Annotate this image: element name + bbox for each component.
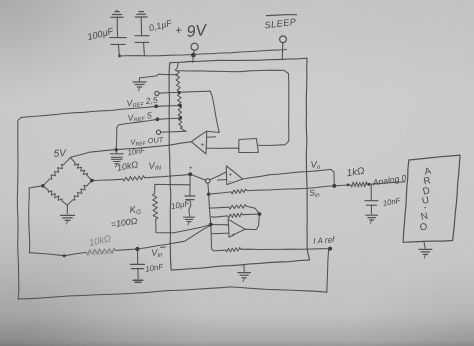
svg-text:+: + xyxy=(231,232,235,239)
wire VREF OUT to bridge 5V xyxy=(70,150,116,158)
wire to 10k sketch xyxy=(64,252,86,255)
wire SW1 to U1A input xyxy=(206,147,239,149)
ground below bridge xyxy=(66,205,68,214)
wire R4 to I A ref node xyxy=(241,248,330,251)
wire to K_G top xyxy=(155,184,190,193)
wire outer loop rise to IAref node xyxy=(327,250,329,293)
wire outer loop bottom xyxy=(18,287,327,299)
ground below 10nF V_in- xyxy=(133,279,143,281)
resistor 10k (V_IN+) xyxy=(92,179,123,180)
svg-text:+: + xyxy=(175,25,183,38)
resistor R4 (I A ref) xyxy=(226,248,241,252)
node small before R xyxy=(347,184,350,187)
wire buffer top input xyxy=(207,131,219,132)
wire node to U1C input xyxy=(211,224,228,226)
wire K_G bottom xyxy=(156,219,174,233)
ground wire from chain top xyxy=(140,74,178,78)
junction rail/C1 xyxy=(118,55,121,58)
op-amp U1B (upper) xyxy=(226,166,242,185)
wire S node to R 1k xyxy=(334,185,351,186)
wire R to Arduino xyxy=(367,182,405,184)
ground left of U1 xyxy=(138,78,140,81)
capacitor C1 100µF xyxy=(116,18,118,37)
pin VREF tap A circle xyxy=(155,91,159,95)
node V_in- xyxy=(135,247,139,251)
node bridge right vertex xyxy=(90,179,94,183)
resistor R3 xyxy=(211,216,227,217)
wire SLEEP drop to U1 xyxy=(281,43,284,59)
junction R2/R3 node xyxy=(258,212,262,216)
ground at U1 bottom xyxy=(243,265,245,272)
wire V_in- diagonal to opamp C xyxy=(137,225,210,249)
wire outer loop left edge xyxy=(17,117,21,299)
resistor K_G 100Ω xyxy=(153,194,159,220)
node VREF 5 xyxy=(156,117,160,121)
wire U1C output feedback xyxy=(245,214,259,230)
resistor chain RDIV (reference divider) xyxy=(177,63,178,68)
capacitor C2 0,1µF xyxy=(140,18,142,35)
terminal SLEEP xyxy=(280,36,287,43)
wire S_in out xyxy=(247,186,335,191)
wire tap B xyxy=(156,105,180,108)
junction VREF OUT / bridge node xyxy=(115,148,118,151)
node S_in junction xyxy=(332,184,336,188)
wire bridge left to V_in- loop xyxy=(29,186,43,253)
resistor 1kΩ xyxy=(351,182,367,187)
bridge resistor bottom-left xyxy=(43,186,49,190)
svg-text:+: + xyxy=(189,165,193,172)
ground below 10nF VREF OUT xyxy=(112,158,123,160)
wire VREF OUT pin to chain bottom xyxy=(161,130,186,133)
junction tap C on chain xyxy=(179,116,182,119)
wire internal loop (chain top to SW) xyxy=(179,70,289,145)
svg-text:+: + xyxy=(200,142,204,149)
wire V_IN+ node to circle xyxy=(192,175,205,180)
ground (inverted) above C2 xyxy=(139,11,143,13)
wire node down to R4 xyxy=(211,225,226,251)
ground below Arduino xyxy=(424,242,425,248)
wire tap A to chain xyxy=(159,91,179,94)
IC U1 outline box xyxy=(169,58,309,270)
op-amp U1C (lower) xyxy=(228,219,245,237)
capacitor 10nF (V_in-) xyxy=(137,249,139,264)
svg-text:9V: 9V xyxy=(186,22,209,41)
ground below 10nF Arduino xyxy=(366,214,378,216)
junction node on 9V rail xyxy=(191,53,196,58)
pin VREF OUT circle xyxy=(156,130,160,134)
svg-text:5V: 5V xyxy=(53,148,67,160)
resistor R2 xyxy=(210,206,229,209)
ground (inverted) above C1 xyxy=(115,11,119,13)
wire VREF 5 jumper to VREF OUT xyxy=(116,119,157,149)
wire 9V pin drop into U1 xyxy=(192,55,194,62)
resistor R1 (to S_in) xyxy=(209,192,232,194)
wire circle to U1B +in xyxy=(210,172,227,180)
wire VREF 2,5 to outer left loop xyxy=(21,106,156,117)
svg-text:I A ref: I A ref xyxy=(313,235,336,246)
bridge resistor top-right xyxy=(70,158,75,163)
capacitor 10nF (Arduino) xyxy=(370,184,372,199)
bridge resistor top-left xyxy=(64,158,71,165)
wire feedback vertical (circle down) xyxy=(208,183,211,224)
label SLEEP overline xyxy=(267,14,297,17)
wire U1A output to VREF OUT line xyxy=(116,142,191,150)
wire V_IN+ node down xyxy=(189,174,191,185)
ground below 10µF xyxy=(184,216,195,218)
wire tap A across to buffer input xyxy=(179,91,219,132)
wire V_IN+ into U1 xyxy=(145,174,191,178)
wire V_in- bottom run xyxy=(30,253,65,256)
wire 9V rail xyxy=(119,50,286,57)
switch box SW1 xyxy=(239,139,259,153)
capacitor 10µF xyxy=(189,185,191,195)
terminal +9V xyxy=(191,43,198,50)
wire to V_in- node xyxy=(116,249,138,250)
op-amp U1A reference buffer (points left) xyxy=(191,131,206,154)
junction R1 node xyxy=(207,193,210,196)
node bridge left vertex xyxy=(41,184,45,188)
node VREF 2,5 xyxy=(154,104,158,108)
resistor 10k (V_in-) sketchy xyxy=(86,248,115,255)
wire V_o bend down to S node xyxy=(331,169,335,185)
junction tap B on chain xyxy=(179,104,182,107)
pin + input circle (op-amp U1B) xyxy=(206,179,210,183)
wire U1B output V_o xyxy=(243,169,331,179)
wire K_G to opamp C input xyxy=(173,225,211,233)
node I A ref xyxy=(328,247,332,251)
node small on V_in- run xyxy=(63,254,66,257)
svg-text:+: + xyxy=(228,171,232,178)
junction 10nF tap xyxy=(367,183,370,186)
node op-amp C input junction xyxy=(209,223,213,227)
wire tap C xyxy=(157,118,180,119)
bridge resistor bottom-right xyxy=(86,181,92,187)
node V_IN+ xyxy=(188,172,192,176)
junction tap A on chain xyxy=(178,91,181,94)
capacitor 10nF on VREF OUT xyxy=(115,150,117,153)
Arduino box xyxy=(403,155,460,242)
